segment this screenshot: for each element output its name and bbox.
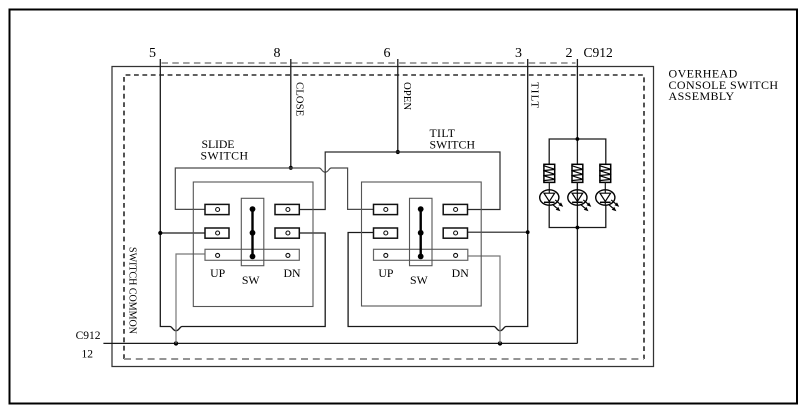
- tilt contact row2 right: [443, 228, 467, 238]
- slide contact row1 right: [275, 204, 299, 214]
- svg-text:C912: C912: [584, 45, 613, 60]
- LED top bus: [549, 139, 606, 164]
- tilt contact bar row3: [374, 249, 468, 260]
- node junction tilt bar to common: [498, 341, 502, 345]
- node junction pin2 bottom bus: [576, 226, 580, 230]
- svg-text:DN: DN: [452, 266, 470, 280]
- wire pin 5 SWITCH COMMON to slide SW common: [160, 59, 325, 331]
- tilt slider contact strip: [420, 209, 422, 256]
- connector C912 bottom dashed line: [124, 358, 644, 360]
- svg-text:5: 5: [149, 46, 156, 61]
- svg-text:SWITCH COMMON: SWITCH COMMON: [127, 247, 139, 334]
- node junction slide bar to common: [174, 341, 178, 345]
- tilt contact row1 right: [443, 204, 467, 214]
- wire switch common bottom pin 12: [103, 342, 577, 344]
- tilt switch S2: [362, 182, 482, 306]
- node junction pin2 top bus: [576, 137, 580, 141]
- slide switch S1: [193, 182, 313, 307]
- svg-text:SWITCH: SWITCH: [430, 137, 476, 151]
- wire slide bar drop: [176, 254, 205, 343]
- resistor R3: [599, 164, 611, 182]
- wire pin 3 branch to tilt row2 right: [467, 231, 528, 233]
- wire pin 2 LED feed: [576, 59, 578, 343]
- slide contact circles: [216, 208, 220, 212]
- connector C912 top dashed line: [162, 62, 576, 64]
- tilt contact row2 left: [374, 228, 398, 238]
- tilt contact row1 left: [374, 204, 398, 214]
- svg-text:SW: SW: [410, 273, 429, 287]
- resistor R1: [543, 164, 555, 182]
- svg-text:ASSEMBLY: ASSEMBLY: [669, 89, 735, 103]
- resistor R2: [571, 164, 583, 182]
- node junction pin5 row2: [158, 231, 162, 235]
- svg-text:2: 2: [566, 46, 573, 61]
- slide slider housing: [241, 198, 263, 265]
- slide switch box: [193, 182, 313, 307]
- wire tilt bar drop: [468, 256, 501, 343]
- svg-text:DN: DN: [283, 266, 301, 280]
- svg-text:CLOSE: CLOSE: [293, 82, 305, 117]
- svg-text:C912: C912: [76, 330, 101, 342]
- wire pin 3 TILT to tilt SW common: [348, 59, 528, 331]
- svg-text:3: 3: [515, 46, 522, 61]
- svg-text:12: 12: [82, 349, 94, 361]
- slide contact row2 right: [275, 228, 299, 238]
- assembly solid box: [112, 67, 654, 367]
- node junction pin6 open net: [396, 150, 400, 154]
- svg-text:OPEN: OPEN: [401, 82, 413, 110]
- LED D1: [540, 182, 564, 211]
- tilt slider housing: [410, 198, 433, 265]
- tilt contact circles: [384, 208, 388, 212]
- assembly dashed box: [124, 75, 644, 359]
- svg-text:SW: SW: [242, 273, 261, 287]
- LED D3: [596, 182, 620, 211]
- wire pin 6 OPEN: [397, 59, 399, 152]
- svg-text:UP: UP: [210, 266, 226, 280]
- LED bottom bus: [549, 205, 606, 227]
- svg-text:SWITCH: SWITCH: [201, 148, 249, 162]
- tilt switch box: [362, 182, 482, 306]
- wire CLOSE net to row1 left contacts: [175, 168, 373, 209]
- svg-text:UP: UP: [378, 266, 394, 280]
- wire pin 8 CLOSE: [290, 59, 292, 168]
- node junction pin3 row2: [526, 230, 530, 234]
- svg-text:6: 6: [384, 46, 391, 61]
- node junction pin8 close net: [289, 166, 293, 170]
- wire pin 5 branch to slide row2 left: [160, 232, 205, 234]
- slide slider contact strip: [251, 209, 253, 256]
- slide contact bar row3: [205, 249, 299, 260]
- wire OPEN net to row1 right contacts: [299, 152, 500, 210]
- LED D2: [568, 182, 591, 211]
- svg-text:TILT: TILT: [529, 82, 541, 108]
- slide contact row1 left: [205, 204, 229, 214]
- svg-text:8: 8: [274, 46, 281, 61]
- slide contact row2 left: [205, 228, 229, 238]
